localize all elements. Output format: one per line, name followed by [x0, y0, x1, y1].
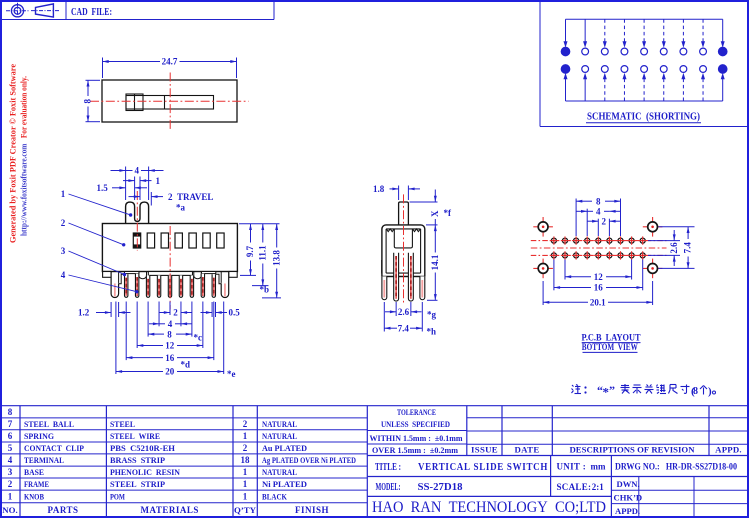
svg-text:8: 8: [8, 407, 13, 417]
svg-text:2.6: 2.6: [669, 242, 679, 254]
svg-text:1.5: 1.5: [97, 183, 109, 193]
svg-text:1: 1: [243, 479, 248, 489]
svg-text:UNLESS SPECIFIED: UNLESS SPECIFIED: [381, 419, 450, 429]
svg-text:*a: *a: [176, 203, 186, 213]
svg-text:X: X: [430, 210, 440, 217]
svg-text:”: ”: [609, 383, 615, 397]
svg-text:NATURAL: NATURAL: [262, 467, 297, 477]
svg-text:*d: *d: [181, 360, 191, 370]
svg-text:NATURAL: NATURAL: [262, 419, 297, 429]
svg-text:7.4: 7.4: [398, 323, 410, 333]
svg-text:CONTACT CLIP: CONTACT CLIP: [24, 443, 84, 453]
svg-text:13.8: 13.8: [271, 250, 281, 266]
svg-text:4: 4: [8, 455, 13, 465]
svg-text:2: 2: [173, 308, 178, 318]
svg-text:2:1: 2:1: [592, 482, 604, 492]
svg-text:8: 8: [693, 386, 698, 397]
svg-text:NATURAL: NATURAL: [262, 431, 297, 441]
svg-text:11.1: 11.1: [257, 245, 267, 261]
svg-text:2: 2: [61, 218, 66, 228]
svg-text:MATERIALS: MATERIALS: [141, 505, 199, 515]
svg-text:9.7: 9.7: [245, 245, 255, 257]
svg-text:SPRING: SPRING: [24, 431, 54, 441]
svg-text:DESCRIPTIONS OF REVISION: DESCRIPTIONS OF REVISION: [570, 445, 696, 455]
svg-text:1: 1: [61, 189, 66, 199]
svg-text:1.2: 1.2: [78, 308, 90, 318]
svg-text:8: 8: [596, 196, 601, 206]
svg-text:CAD FILE:: CAD FILE:: [71, 6, 112, 18]
svg-text:): ): [708, 386, 712, 398]
svg-text:14.1: 14.1: [430, 254, 440, 270]
svg-text:7.4: 7.4: [683, 242, 693, 254]
svg-text:TERMINAL: TERMINAL: [24, 455, 64, 465]
svg-text:*c: *c: [194, 333, 203, 343]
svg-text:1: 1: [156, 176, 161, 186]
svg-text:PBS C5210R-EH: PBS C5210R-EH: [110, 443, 175, 453]
svg-text:Q’TY: Q’TY: [234, 505, 257, 515]
svg-text:CHK’D: CHK’D: [614, 493, 643, 503]
svg-text:0.5: 0.5: [229, 308, 241, 318]
svg-text:2: 2: [243, 443, 248, 453]
svg-text:APPD.: APPD.: [615, 506, 640, 516]
svg-text:*f: *f: [444, 208, 453, 218]
svg-text:Generated by Foxit PDF Creator: Generated by Foxit PDF Creator © Foxit S…: [7, 64, 17, 243]
svg-text:4: 4: [134, 166, 139, 176]
svg-text:1.8: 1.8: [373, 184, 385, 194]
svg-text:4: 4: [168, 319, 173, 329]
svg-text:SS-27D18: SS-27D18: [418, 481, 463, 493]
svg-text:DRWG NO.: HR-DR-SS27D18-00: DRWG NO.: HR-DR-SS27D18-00: [615, 462, 737, 472]
svg-text:4: 4: [596, 207, 601, 217]
svg-text:*e: *e: [227, 369, 236, 379]
svg-text:BRASS STRIP: BRASS STRIP: [110, 455, 165, 465]
svg-text:20.1: 20.1: [590, 298, 606, 308]
svg-text:2 TRAVEL: 2 TRAVEL: [168, 192, 213, 202]
svg-text:TOLERANCE: TOLERANCE: [397, 407, 436, 417]
svg-text:NO.: NO.: [2, 505, 17, 515]
svg-text:2: 2: [602, 216, 607, 226]
svg-text:*h: *h: [427, 327, 437, 337]
svg-text:APPD.: APPD.: [715, 445, 742, 455]
svg-text:2.6: 2.6: [398, 307, 410, 317]
svg-text:BOTTOM VIEW: BOTTOM VIEW: [582, 342, 638, 353]
svg-text:5: 5: [8, 443, 13, 453]
svg-text:6: 6: [8, 431, 13, 441]
svg-text:12: 12: [165, 341, 175, 351]
svg-text:WITHIN 1.5mm : ±0.1mm: WITHIN 1.5mm : ±0.1mm: [370, 433, 464, 443]
svg-text:7: 7: [8, 419, 13, 429]
svg-text:3: 3: [61, 246, 66, 256]
svg-text:2: 2: [8, 479, 13, 489]
svg-text:8: 8: [83, 99, 93, 104]
svg-text:BLACK: BLACK: [262, 492, 287, 502]
svg-text:KNOB: KNOB: [24, 492, 44, 502]
svg-text:OVER 1.5mm : ±0.2mm: OVER 1.5mm : ±0.2mm: [372, 445, 459, 455]
svg-text:4: 4: [61, 270, 66, 280]
svg-text:Ag PLATED OVER Ni PLATED: Ag PLATED OVER Ni PLATED: [262, 455, 356, 465]
svg-text:STEEL: STEEL: [110, 419, 135, 429]
svg-text:Ni PLATED: Ni PLATED: [262, 479, 307, 489]
svg-text:FRAME: FRAME: [24, 479, 49, 489]
svg-text:http://www.foxitsoftware.com: http://www.foxitsoftware.com For evaluat…: [18, 76, 28, 236]
svg-text:TITLE :: TITLE :: [375, 462, 401, 473]
svg-text:1: 1: [8, 492, 13, 502]
svg-text:POM: POM: [110, 492, 125, 502]
svg-text:DWN.: DWN.: [617, 479, 640, 489]
svg-text:SCHEMATIC (SHORTING): SCHEMATIC (SHORTING): [587, 112, 700, 123]
svg-text:12: 12: [594, 272, 604, 282]
svg-text:24.7: 24.7: [162, 57, 178, 67]
svg-text:STEEL WIRE: STEEL WIRE: [110, 431, 160, 441]
svg-text:2: 2: [243, 419, 248, 429]
svg-text:Au PLATED: Au PLATED: [262, 443, 307, 453]
svg-text:STEEL BALL: STEEL BALL: [24, 419, 74, 429]
svg-text:8: 8: [167, 329, 172, 339]
svg-text:STEEL STRIP: STEEL STRIP: [110, 479, 165, 489]
svg-text:*b: *b: [260, 285, 270, 295]
svg-text:SCALE:: SCALE:: [557, 482, 592, 492]
svg-text:18: 18: [241, 455, 251, 465]
svg-text:VERTICAL SLIDE SWITCH: VERTICAL SLIDE SWITCH: [418, 462, 548, 473]
svg-text:3: 3: [8, 467, 13, 477]
svg-text:BASE: BASE: [24, 467, 44, 477]
svg-text:PHENOLIC RESIN: PHENOLIC RESIN: [110, 467, 181, 477]
svg-text:HAO RAN TECHNOLOGY CO;LTD: HAO RAN TECHNOLOGY CO;LTD: [372, 499, 606, 516]
svg-text:MODEL:: MODEL:: [376, 482, 401, 493]
svg-text:mm: mm: [591, 462, 606, 472]
svg-text:FINISH: FINISH: [295, 505, 329, 515]
svg-text:ISSUE: ISSUE: [471, 445, 498, 455]
svg-text:PARTS: PARTS: [47, 505, 78, 515]
svg-text:1: 1: [243, 467, 248, 477]
svg-text:16: 16: [594, 283, 604, 293]
svg-text:UNIT :: UNIT :: [557, 462, 587, 472]
svg-text:1: 1: [243, 431, 248, 441]
svg-text:16: 16: [165, 353, 175, 363]
svg-text:1: 1: [243, 492, 248, 502]
svg-text:*g: *g: [427, 310, 437, 320]
svg-text:DATE: DATE: [515, 445, 540, 455]
svg-text:20: 20: [165, 367, 175, 377]
